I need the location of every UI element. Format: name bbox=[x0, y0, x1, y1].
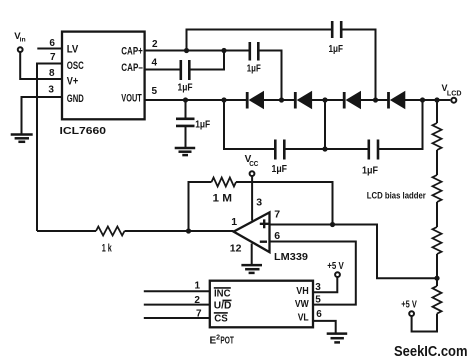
wire E2POT pin 1 stub bbox=[144, 290, 210, 292]
svg-text:+5 V: +5 V bbox=[327, 261, 344, 272]
svg-text:SeekIC.com: SeekIC.com bbox=[394, 344, 468, 360]
IC U3 E2POT bbox=[210, 281, 313, 328]
svg-text:V+: V+ bbox=[67, 75, 79, 87]
svg-text:CS: CS bbox=[214, 313, 228, 324]
svg-text:7: 7 bbox=[274, 208, 280, 220]
svg-text:LCD: LCD bbox=[447, 91, 462, 98]
junction dot output/feedback bbox=[186, 228, 191, 233]
capacitor C4 1uF (VOUT to ground) bbox=[176, 100, 210, 147]
resistor R4 ladder bbox=[433, 175, 442, 202]
junction dot pin2/flycap bbox=[221, 48, 226, 53]
wire ladder bbox=[436, 150, 438, 175]
diode D4 bbox=[389, 92, 405, 109]
svg-text:INC: INC bbox=[214, 288, 231, 299]
wire D2 to D3 bbox=[312, 99, 343, 101]
junction dot VOUT/bottom row bbox=[221, 97, 226, 102]
svg-text:GND: GND bbox=[67, 93, 84, 105]
wire bottom cap row bbox=[224, 100, 275, 149]
svg-text:VL: VL bbox=[298, 313, 309, 324]
svg-text:7: 7 bbox=[196, 308, 202, 319]
svg-text:3: 3 bbox=[256, 197, 262, 209]
wire VCC stem / pin 3 of LM339 bbox=[251, 176, 253, 221]
wire LV pin 6 stub bbox=[37, 48, 62, 50]
capacitor C5 1uF (bottom row left) bbox=[272, 140, 288, 175]
svg-text:LM339: LM339 bbox=[274, 251, 308, 263]
capacitor C3 1uF (top wire) bbox=[329, 21, 344, 55]
wire top wire to D3-D4 node bbox=[342, 30, 376, 101]
svg-text:LCD bias ladder: LCD bias ladder bbox=[367, 191, 426, 201]
svg-text:6: 6 bbox=[316, 309, 322, 320]
resistor R3 ladder bbox=[433, 123, 442, 150]
svg-text:3: 3 bbox=[315, 282, 321, 293]
node +5V terminal (VH) bbox=[327, 261, 344, 277]
node VCC terminal bbox=[245, 154, 259, 176]
wire D1 to D2 bbox=[264, 99, 295, 101]
wire E2POT pin 7 stub bbox=[144, 317, 210, 319]
wire + input pin 7 to ladder tap bbox=[270, 225, 438, 279]
svg-text:2: 2 bbox=[194, 295, 200, 306]
wire VL pin 6 to ground bbox=[313, 321, 336, 333]
resistor R5 ladder bbox=[433, 227, 442, 254]
junction dot D1-D2 node bbox=[279, 97, 284, 102]
svg-text:7: 7 bbox=[50, 52, 56, 63]
wire pin2 cap to diode node bbox=[259, 51, 282, 101]
IC U1 ICL7660 bbox=[60, 32, 145, 137]
wire CAP+ pin 2 line bbox=[145, 50, 249, 52]
wire output line from OSC drop through 1k bbox=[37, 230, 96, 232]
svg-text:5: 5 bbox=[152, 86, 158, 97]
wire flying cap up to pin2 node bbox=[190, 51, 224, 70]
junction dot pin2/topwire bbox=[184, 48, 189, 53]
resistor R6 ladder bbox=[433, 286, 442, 314]
wire CAP- pin 4 line bbox=[145, 69, 180, 71]
svg-text:CC: CC bbox=[249, 159, 259, 168]
junction dot ladder top bbox=[434, 97, 439, 102]
ground below LM339 bbox=[241, 265, 262, 273]
svg-text:1: 1 bbox=[195, 281, 201, 292]
svg-text:6: 6 bbox=[49, 38, 55, 49]
junction dot D2-D3 node bbox=[322, 97, 327, 102]
svg-text:CAP+: CAP+ bbox=[121, 46, 143, 58]
wire bottom row right end up to diode row bbox=[379, 100, 423, 149]
wire VH pin 3 to +5V bbox=[313, 278, 337, 293]
ground below VL bbox=[327, 334, 348, 343]
svg-text:1μF: 1μF bbox=[329, 44, 344, 55]
svg-text:ICL7660: ICL7660 bbox=[60, 125, 107, 137]
wire ladder bbox=[436, 202, 438, 227]
wire bottom row middle bbox=[285, 148, 368, 150]
svg-text:1μF: 1μF bbox=[247, 64, 261, 75]
capacitor C1 1uF (flying cap pins 2-4) bbox=[178, 60, 193, 94]
wire GND pin 3 to ground bbox=[22, 97, 63, 134]
svg-text:OSC: OSC bbox=[67, 60, 84, 72]
svg-text:LV: LV bbox=[67, 43, 79, 55]
svg-text:1 M: 1 M bbox=[213, 192, 233, 204]
svg-text:5: 5 bbox=[315, 295, 321, 306]
wire D2-D3 node down to bottom row bbox=[324, 100, 326, 149]
ground below Vin bbox=[11, 135, 33, 142]
capacitor C2 1uF (pin2 line) bbox=[247, 42, 261, 75]
svg-text:1: 1 bbox=[231, 216, 237, 228]
diode D1 bbox=[247, 92, 263, 109]
svg-text:1 k: 1 k bbox=[102, 242, 113, 254]
svg-text:8: 8 bbox=[49, 68, 55, 79]
svg-text:1μF: 1μF bbox=[178, 83, 193, 94]
wire pin 12 to ground bbox=[251, 244, 253, 265]
wire ladder spine top bbox=[436, 100, 438, 123]
wire Vin to V+ pin 8 bbox=[20, 52, 62, 79]
svg-text:U/D: U/D bbox=[214, 301, 232, 312]
diode D2 bbox=[295, 92, 311, 109]
svg-text:CAP–: CAP– bbox=[121, 62, 143, 74]
wire E2POT pin 2 stub bbox=[144, 304, 210, 306]
label E2POT bbox=[210, 335, 234, 347]
svg-text:1μF: 1μF bbox=[195, 119, 210, 130]
wire 1k to op-amp output bbox=[125, 230, 234, 232]
junction dot VOUT/filter cap bbox=[183, 97, 188, 102]
svg-text:3: 3 bbox=[48, 85, 54, 96]
svg-text:VW: VW bbox=[295, 299, 309, 310]
resistor R2 1M bbox=[212, 178, 237, 205]
svg-text:4: 4 bbox=[152, 58, 158, 69]
wire D4 to VLCD terminal bbox=[405, 99, 451, 101]
wire D3 to D4 bbox=[361, 99, 388, 101]
junction dot feedback to + input bbox=[330, 222, 335, 227]
capacitor C6 1uF (bottom row right) bbox=[362, 140, 378, 177]
svg-text:VOUT: VOUT bbox=[121, 92, 142, 104]
diode D3 bbox=[344, 92, 360, 109]
svg-text:1μF: 1μF bbox=[272, 164, 288, 175]
node Vin terminal bbox=[14, 31, 25, 52]
svg-text:VH: VH bbox=[296, 286, 309, 297]
svg-text:POT: POT bbox=[220, 335, 234, 346]
op-amp U2 LM339 bbox=[230, 197, 308, 263]
node +5V terminal (ladder) bbox=[401, 300, 417, 316]
junction dot ladder tap bbox=[434, 276, 439, 281]
svg-text:1μF: 1μF bbox=[362, 165, 378, 176]
wire feedback line right segment down to + input bbox=[236, 182, 333, 225]
wire VOUT pin 5 to diode D1 bbox=[145, 99, 246, 101]
wire feedback line left segment bbox=[189, 182, 212, 231]
wire ladder bbox=[436, 254, 438, 286]
resistor R1 1k bbox=[96, 227, 125, 255]
wire top pump wire bbox=[187, 30, 332, 52]
svg-text:6: 6 bbox=[274, 230, 280, 242]
junction dot bottom row right bbox=[420, 97, 425, 102]
svg-text:12: 12 bbox=[230, 242, 242, 254]
svg-text:2: 2 bbox=[152, 39, 158, 50]
node VLCD terminal bbox=[442, 83, 462, 103]
junction dot D3-D4 node bbox=[373, 97, 378, 102]
junction dot bottom row tap bbox=[322, 146, 327, 151]
wire OSC pin 7 down to 1k line bbox=[37, 64, 62, 232]
svg-text:+5 V: +5 V bbox=[401, 300, 417, 311]
wire ladder bottom to +5V terminal bbox=[412, 314, 437, 332]
svg-text:in: in bbox=[20, 37, 26, 44]
ground below VOUT cap bbox=[175, 148, 196, 155]
wire - input pin 6 to E2POT VW bbox=[270, 242, 356, 305]
